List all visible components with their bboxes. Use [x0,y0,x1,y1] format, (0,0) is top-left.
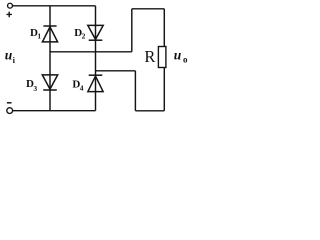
wire node B down segment [134,71,136,111]
diode D2 symbol (conducts down: triangle above, bar below) [88,25,103,40]
svg-text:2: 2 [82,31,86,40]
diode D3 symbol (conducts down: triangle above, bar below) [42,75,57,90]
minus sign [7,102,12,104]
svg-text:u: u [174,47,182,62]
diode D4 symbol (conducts up: bar on top, triangle below) [88,75,103,91]
terminal + input (top-left open circle) [8,3,13,8]
terminal - input (bottom-left open circle) [7,108,13,114]
svg-text:i: i [13,55,16,65]
svg-text:R: R [144,47,155,66]
plus sign [7,12,12,18]
svg-text:4: 4 [80,83,84,92]
wire from top-right corner down to R top [163,9,165,47]
resistor R box [158,47,166,68]
wire top rail from + terminal to D2 branch [13,5,96,7]
wire left branch vertical (D1/D3 leg) [49,6,51,111]
diode D1 symbol (conducts up: bar on top, triangle below) [42,26,57,42]
wire node A horizontal from left branch to right loop [50,51,132,53]
svg-text:o: o [183,55,188,65]
svg-text:1: 1 [37,31,41,40]
wire right loop up segment [131,9,133,52]
svg-text:3: 3 [33,84,37,93]
wire bottom connector to R bottom [135,110,164,112]
wire node B horizontal from right branch [96,70,136,72]
wire top-right horizontal to load [132,8,165,10]
wire right branch vertical (D2/D4 leg) [95,6,97,111]
wire bottom rail from - terminal to D4 branch [13,110,96,112]
wire R bottom vertical [163,68,165,111]
svg-text:u: u [5,48,13,63]
